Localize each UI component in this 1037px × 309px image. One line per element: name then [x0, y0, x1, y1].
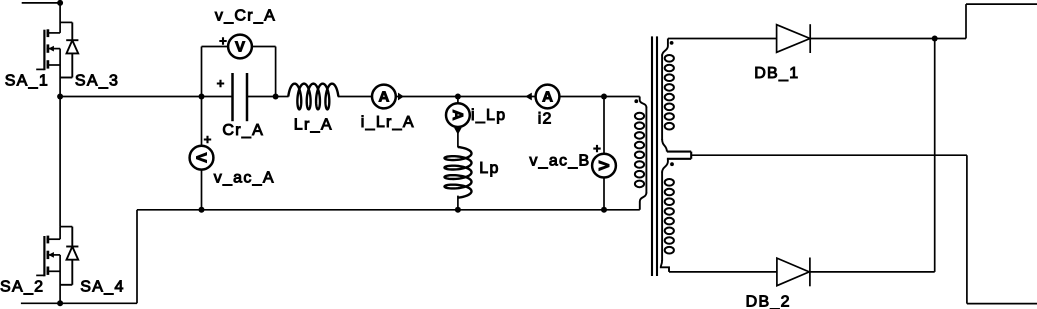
wire v_Cr_A right riser — [275, 47, 277, 97]
svg-text:Lr_A: Lr_A — [294, 116, 333, 133]
wire top-left stub — [22, 2, 60, 4]
svg-text:Lp: Lp — [479, 160, 499, 177]
wire DB bus vertical — [934, 39, 936, 272]
wire v_Cr_A top right — [252, 46, 276, 48]
diode DB_1 — [777, 25, 810, 53]
arrow of i2 — [525, 93, 532, 101]
svg-text:i_Lr_A: i_Lr_A — [361, 114, 415, 131]
transformer secondary top winding — [662, 39, 668, 56]
node Lp top junction — [455, 94, 461, 100]
wire v_ac_A bottom — [201, 169, 203, 210]
svg-text:Cr_A: Cr_A — [222, 122, 264, 139]
transformer secondary bottom winding — [662, 159, 668, 173]
wire i_Lp node to i2 — [458, 96, 535, 98]
polarity + of v_ac_A — [204, 136, 211, 143]
wire v_ac_A top — [201, 97, 203, 147]
wire primary top lead — [604, 96, 640, 98]
svg-text:v_ac_A: v_ac_A — [214, 169, 275, 186]
transistor SA_2 (MOSFET with gate) — [59, 227, 61, 240]
svg-text:SA_3: SA_3 — [75, 73, 119, 90]
polarity dot secondary top — [670, 41, 674, 45]
wire center tap — [691, 154, 967, 156]
svg-text:A: A — [378, 88, 389, 105]
svg-text:DB_2: DB_2 — [746, 294, 791, 309]
node leg A bottom junction — [57, 300, 63, 306]
wire v_ac_B top — [603, 97, 605, 155]
node v_ac_A bottom junction — [199, 207, 205, 213]
diode SA_4 (body diode of SA_2) — [71, 227, 73, 247]
polarity dot primary — [634, 99, 638, 103]
voltmeter v_ac_A — [190, 146, 214, 170]
wire secondary top to DB_1 — [668, 38, 777, 40]
wire top-right output — [966, 3, 1037, 5]
node v_ac_B bottom junction — [601, 207, 607, 213]
node Cr_A left junction — [199, 94, 205, 100]
wire v_Cr_A top left — [202, 46, 229, 48]
svg-text:i_Lp: i_Lp — [471, 107, 506, 124]
inductor Lp — [445, 147, 472, 198]
wire bottom rail — [21, 302, 137, 304]
wire bottom rail riser — [136, 210, 138, 303]
svg-text:A: A — [449, 110, 466, 121]
wire i_Lp meter bottom — [457, 127, 459, 148]
polarity + of v_ac_B — [593, 145, 600, 152]
wire v_ac_B bottom — [603, 177, 605, 210]
polarity + of v_Cr_A — [219, 37, 226, 44]
svg-text:v_ac_B: v_ac_B — [529, 153, 590, 170]
transistor SA_1 (MOSFET with gate) — [59, 3, 61, 33]
wire bottom-mid bus — [137, 209, 640, 211]
svg-text:V: V — [193, 153, 210, 163]
transformer primary winding — [640, 97, 647, 108]
svg-text:V: V — [235, 38, 245, 55]
ammeter i_Lr_A — [372, 85, 396, 109]
wire Cr_A right plate to junction — [247, 96, 276, 98]
wire to Cr_A left plate — [202, 96, 233, 98]
inductor Lr_A — [288, 84, 338, 110]
arrow of i_Lr_A — [398, 93, 404, 101]
polarity dot secondary bottom — [670, 162, 674, 166]
node half-bridge A top junction — [57, 0, 63, 6]
svg-text:v_Cr_A: v_Cr_A — [215, 7, 276, 24]
wire SA midpoint to Cr_A node — [60, 96, 201, 98]
polarity + of Cr_A — [217, 80, 224, 87]
wire v_Cr_A left riser — [201, 47, 203, 97]
svg-text:SA_1: SA_1 — [5, 73, 49, 90]
node v_ac_B top junction — [601, 94, 607, 100]
wire DB_1 to output node — [810, 38, 935, 40]
svg-text:i2: i2 — [538, 110, 553, 127]
ammeter i_Lp — [446, 103, 470, 127]
diode DB_2 — [777, 258, 809, 286]
wire i2 to v_ac_B node — [559, 96, 604, 98]
wire top-right riser — [965, 4, 967, 38]
wire junction to Lr_A — [276, 96, 289, 98]
wire i_Lp meter top — [457, 97, 459, 104]
svg-text:V: V — [596, 161, 613, 171]
voltmeter v_Cr_A — [228, 35, 252, 59]
node output positive junction — [932, 36, 938, 42]
node Lp bottom junction — [455, 207, 461, 213]
wire Lr_A to i_Lr_A — [338, 96, 373, 98]
wire output node to top-right step — [935, 38, 966, 40]
node Cr_A right junction — [273, 94, 279, 100]
wire bottom-right riser — [966, 155, 968, 303]
wire secondary bottom to DB_2 — [669, 271, 777, 273]
svg-text:SA_2: SA_2 — [0, 278, 44, 295]
diode SA_3 (body diode of SA_1) — [71, 22, 73, 40]
ammeter i2 — [536, 85, 560, 109]
node half-bridge A midpoint — [57, 94, 63, 100]
voltmeter v_ac_B — [592, 154, 616, 178]
transformer core — [651, 36, 653, 276]
center tap bracket — [667, 151, 691, 153]
svg-text:SA_4: SA_4 — [80, 278, 124, 295]
svg-text:DB_1: DB_1 — [754, 65, 799, 82]
wire leg A midpoint to SA_2 drain — [59, 97, 61, 227]
capacitor Cr_A — [231, 73, 234, 121]
arrow of i_Lp — [454, 128, 462, 135]
svg-text:A: A — [542, 88, 553, 105]
wire DB_2 to bus — [810, 271, 935, 273]
wire Lp bottom — [457, 196, 459, 210]
wire i_Lr_A to i_Lp node — [395, 96, 458, 98]
wire bottom-right output — [967, 303, 1037, 305]
